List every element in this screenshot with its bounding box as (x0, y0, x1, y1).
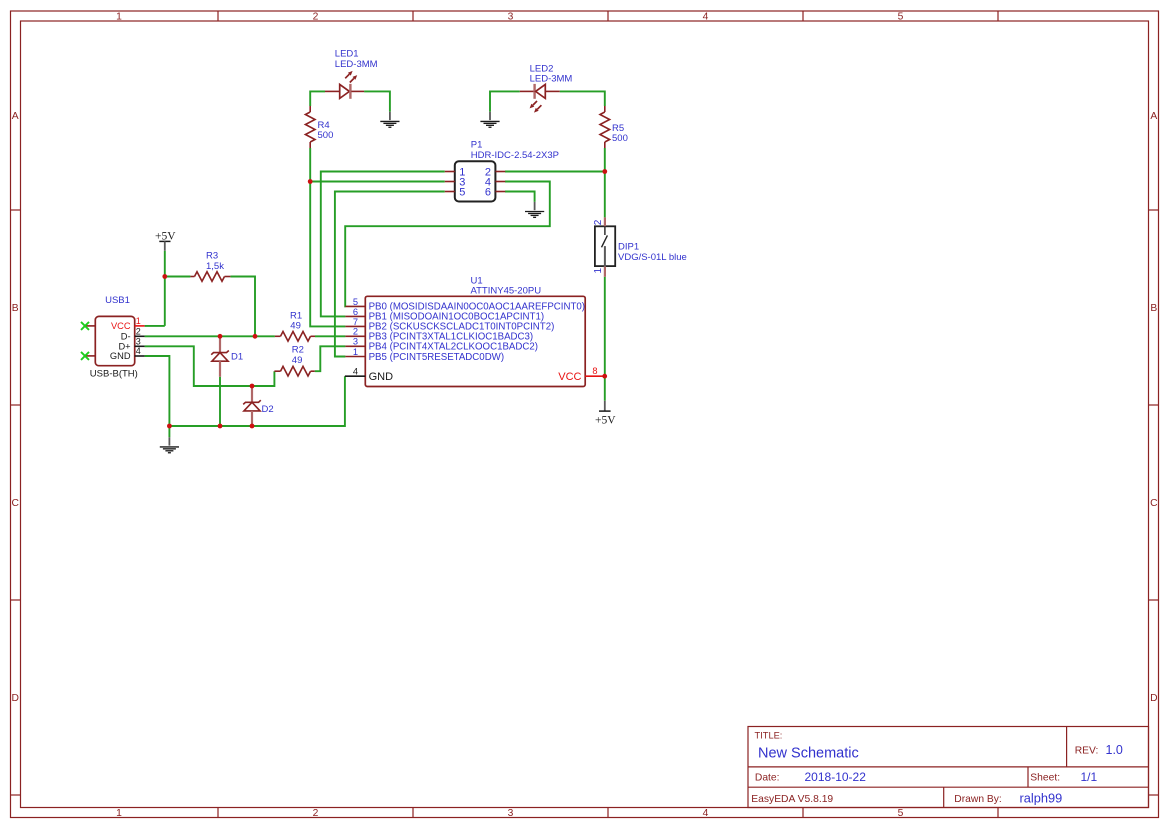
svg-text:EasyEDA V5.8.19: EasyEDA V5.8.19 (751, 794, 833, 805)
wire R2 right to U1 PB4 (315, 346, 346, 371)
connector USB1 (95, 316, 134, 365)
junction node R4/P1.3/PB2 (308, 179, 313, 184)
P1 pin 3 (445, 176, 466, 188)
wire node to R3 left (165, 276, 191, 278)
switch DIP1 (593, 217, 615, 276)
svg-text:5: 5 (353, 297, 358, 307)
svg-text:Date:: Date: (755, 772, 780, 783)
svg-text:P1: P1 (471, 139, 483, 150)
svg-text:2: 2 (313, 808, 319, 819)
svg-text:4: 4 (136, 346, 141, 356)
svg-text:Sheet:: Sheet: (1030, 772, 1060, 783)
resistor R2 (274, 366, 314, 376)
U1 pin 5 PB0 (345, 297, 585, 313)
junction node D- at D1 (218, 334, 223, 339)
svg-text:A: A (1150, 111, 1157, 122)
svg-text:A: A (12, 111, 19, 122)
wire P1 pin6 to ground (505, 192, 535, 202)
wire LED1 anode to R4 top (310, 91, 325, 106)
U1 pin 3 PB4 (345, 337, 538, 353)
junction node rail at USB GND (167, 424, 172, 429)
USB1 shield pin 5 with no-connect X (81, 322, 95, 330)
svg-text:TITLE:: TITLE: (755, 731, 783, 741)
wire ground rail to U1 GND pin (169, 376, 345, 426)
svg-text:VDG/S-01L blue: VDG/S-01L blue (618, 252, 687, 263)
P1 pin 6 (485, 186, 505, 198)
svg-text:D: D (11, 693, 18, 704)
wire P1 pin3 to U1 PB2 (310, 182, 445, 327)
power flag +5V (below U1 VCC) (595, 401, 616, 427)
svg-text:1: 1 (136, 316, 141, 326)
USB1 pin 1 VCC (111, 316, 145, 331)
svg-text:+5V: +5V (155, 230, 176, 242)
wire R3 right to D- node (230, 277, 255, 337)
P1 pin 4 (485, 176, 505, 188)
wire USB1 D- to R1 (145, 335, 275, 337)
resistor R5 (600, 106, 610, 148)
LED LED2 (520, 84, 560, 113)
junction node D+ at D2 (250, 384, 255, 389)
connector P1 (455, 161, 496, 201)
svg-text:4: 4 (703, 808, 709, 819)
ground at LED1 (380, 112, 399, 127)
U1 pin 6 PB1 (345, 307, 544, 323)
svg-text:1: 1 (353, 347, 358, 357)
svg-text:USB-B(TH): USB-B(TH) (90, 369, 138, 380)
title block (748, 727, 1149, 808)
wire +5V flag to R3 node to USB1 VCC (164, 251, 166, 326)
wire LED1 cathode to ground (364, 91, 390, 111)
U1 pin 8 VCC (558, 366, 604, 383)
wire P1 pin2 to R5/DIP1 node (505, 171, 605, 173)
IC U1 ATTINY45-20PU (365, 296, 585, 386)
svg-text:49: 49 (292, 355, 303, 366)
USB1 pin 2 D- (121, 326, 145, 341)
wire R1 right to U1 PB3 (315, 335, 345, 337)
svg-text:VCC: VCC (558, 371, 581, 383)
USB1 pin 4 GND (110, 346, 145, 361)
svg-text:ralph99: ralph99 (1020, 791, 1063, 806)
svg-text:ATTINY45-20PU: ATTINY45-20PU (471, 286, 542, 297)
title block text (751, 731, 1123, 806)
USB1 shield pin 6 with no-connect X (81, 352, 95, 360)
svg-text:B: B (1150, 303, 1157, 314)
wire R5 bottom through node to DIP1 pin2 (604, 148, 606, 217)
svg-text:LED-3MM: LED-3MM (335, 59, 378, 70)
ground at USB rail (160, 437, 179, 452)
svg-text:8: 8 (592, 366, 597, 376)
svg-text:D: D (1150, 693, 1157, 704)
svg-text:D1: D1 (231, 352, 243, 363)
svg-text:5: 5 (459, 186, 465, 198)
svg-text:2018-10-22: 2018-10-22 (805, 770, 867, 784)
zener diode D1 (211, 337, 229, 377)
P1 pin 1 (445, 166, 466, 178)
svg-text:1: 1 (116, 808, 122, 819)
junction node U1 VCC (602, 374, 607, 379)
svg-text:+5V: +5V (595, 414, 616, 426)
wire rail node to ground symbol (168, 426, 170, 437)
wire DIP1 pin1 to VCC node and +5V flag (604, 277, 606, 401)
svg-text:HDR-IDC-2.54-2X3P: HDR-IDC-2.54-2X3P (471, 150, 559, 161)
U1 pin 7 PB2 (345, 317, 554, 333)
wire USB1 VCC pin (145, 325, 165, 327)
svg-text:B: B (12, 303, 19, 314)
svg-text:R2: R2 (292, 345, 304, 356)
svg-text:2: 2 (136, 326, 141, 336)
svg-text:1,5k: 1,5k (206, 261, 224, 272)
svg-text:500: 500 (612, 133, 628, 144)
wire R4 bottom to node P1.3 (309, 148, 311, 182)
svg-text:C: C (11, 498, 19, 509)
svg-text:VCC: VCC (111, 321, 131, 331)
svg-text:3: 3 (508, 12, 514, 23)
svg-text:New Schematic: New Schematic (758, 746, 859, 762)
svg-text:LED-3MM: LED-3MM (530, 73, 573, 84)
wire P1 pin4 to U1 PB0 (345, 182, 550, 307)
svg-text:2: 2 (313, 12, 319, 23)
resistor R1 (275, 332, 315, 342)
svg-text:2: 2 (353, 327, 358, 337)
svg-text:3: 3 (508, 808, 514, 819)
wire USB1 D+ to D2 node (145, 346, 252, 386)
U1 pin 2 PB3 (345, 327, 533, 343)
wire D2 node to R2 left (252, 371, 274, 386)
svg-text:6: 6 (353, 307, 358, 317)
svg-text:4: 4 (703, 12, 709, 23)
junction node rail at D2 (250, 424, 255, 429)
svg-text:D-: D- (121, 331, 131, 341)
svg-text:Drawn By:: Drawn By: (954, 794, 1002, 805)
svg-text:4: 4 (353, 366, 358, 376)
zener diode D2 (243, 387, 261, 426)
wire LED2 anode to R5 top (560, 91, 605, 106)
svg-text:6: 6 (485, 186, 491, 198)
svg-text:PB5 (PCINT5RESETADC0DW): PB5 (PCINT5RESETADC0DW) (369, 352, 504, 363)
wire P1 pin5 to U1 PB5 (335, 192, 445, 357)
junction node rail at D1 (218, 424, 223, 429)
svg-text:500: 500 (318, 130, 334, 141)
resistor R4 (305, 106, 315, 148)
svg-text:5: 5 (898, 808, 904, 819)
wire D1 bottom to rail (219, 377, 221, 426)
ground at P1 pin6 (525, 202, 544, 217)
wire LED2 cathode to ground (490, 91, 520, 111)
power flag +5V (top left) (155, 230, 176, 250)
resistor R3 (190, 272, 230, 282)
svg-text:R3: R3 (206, 250, 218, 261)
svg-text:2: 2 (593, 219, 604, 225)
P1 pin 2 (485, 166, 505, 178)
junction node D- at R3 (253, 334, 258, 339)
svg-text:49: 49 (290, 321, 301, 332)
svg-text:USB1: USB1 (105, 295, 130, 306)
USB1 pin 3 D+ (118, 336, 144, 351)
svg-text:3: 3 (136, 336, 141, 346)
junction node +5V/R3/USB VCC (162, 274, 167, 279)
ground at LED2 (480, 112, 499, 127)
svg-text:5: 5 (898, 12, 904, 23)
svg-text:1.0: 1.0 (1106, 743, 1123, 757)
svg-text:1: 1 (593, 267, 604, 273)
svg-text:D2: D2 (262, 404, 274, 415)
LED LED1 (325, 71, 364, 99)
svg-text:D+: D+ (118, 341, 130, 351)
svg-text:7: 7 (353, 317, 358, 327)
U1 pin 4 GND (345, 366, 393, 383)
wire P1 pin1 to U1 PB1 (321, 172, 445, 317)
svg-text:3: 3 (353, 337, 358, 347)
P1 pin 5 (445, 186, 466, 198)
U1 pin 1 PB5 (345, 347, 504, 363)
svg-text:GND: GND (369, 371, 394, 383)
svg-text:GND: GND (110, 351, 131, 361)
wire USB1 GND down to ground rail (145, 356, 170, 426)
svg-text:1/1: 1/1 (1081, 770, 1098, 784)
junction node P1.2/R5/DIP1 (602, 169, 607, 174)
svg-text:C: C (1150, 498, 1158, 509)
svg-text:1: 1 (116, 12, 122, 23)
svg-text:REV:: REV: (1075, 746, 1099, 757)
